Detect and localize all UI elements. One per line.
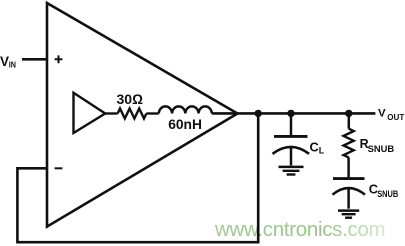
- svg-text:SNUB: SNUB: [368, 144, 395, 155]
- svg-text:C: C: [310, 139, 319, 154]
- svg-text:30Ω: 30Ω: [117, 91, 144, 107]
- svg-text:OUT: OUT: [387, 113, 404, 122]
- svg-text:SNUB: SNUB: [377, 189, 398, 200]
- svg-text:V: V: [0, 54, 9, 69]
- svg-text:L: L: [319, 146, 325, 156]
- svg-text:V: V: [378, 108, 386, 120]
- svg-text:www.cntronics.com: www.cntronics.com: [214, 218, 385, 241]
- svg-text:60nH: 60nH: [168, 117, 202, 132]
- svg-text:IN: IN: [9, 60, 16, 69]
